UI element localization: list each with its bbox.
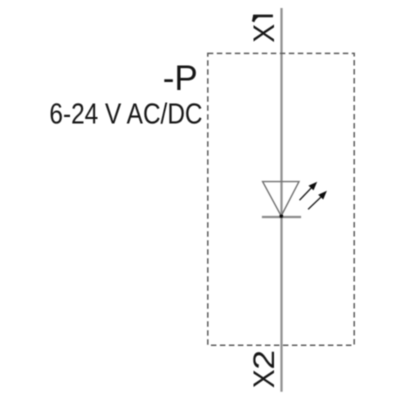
wire: vertical conductor from terminal X1 to terminal X2 [280,8,282,392]
LED triangle (anode) [263,182,299,216]
light emission arrow 1 [300,182,318,201]
dashed enclosure box [208,53,354,345]
svg-text:2: 2 [248,350,281,370]
terminal label X2 [248,350,281,388]
LED cathode bar [262,216,301,218]
svg-text:-P: -P [163,59,198,98]
terminal label X1 [248,15,281,43]
svg-text:X: X [248,24,281,43]
svg-text:6-24 V AC/DC: 6-24 V AC/DC [49,98,202,130]
light emission arrow 2 [308,191,327,210]
junction node dot [279,214,283,218]
svg-text:X: X [248,369,281,388]
